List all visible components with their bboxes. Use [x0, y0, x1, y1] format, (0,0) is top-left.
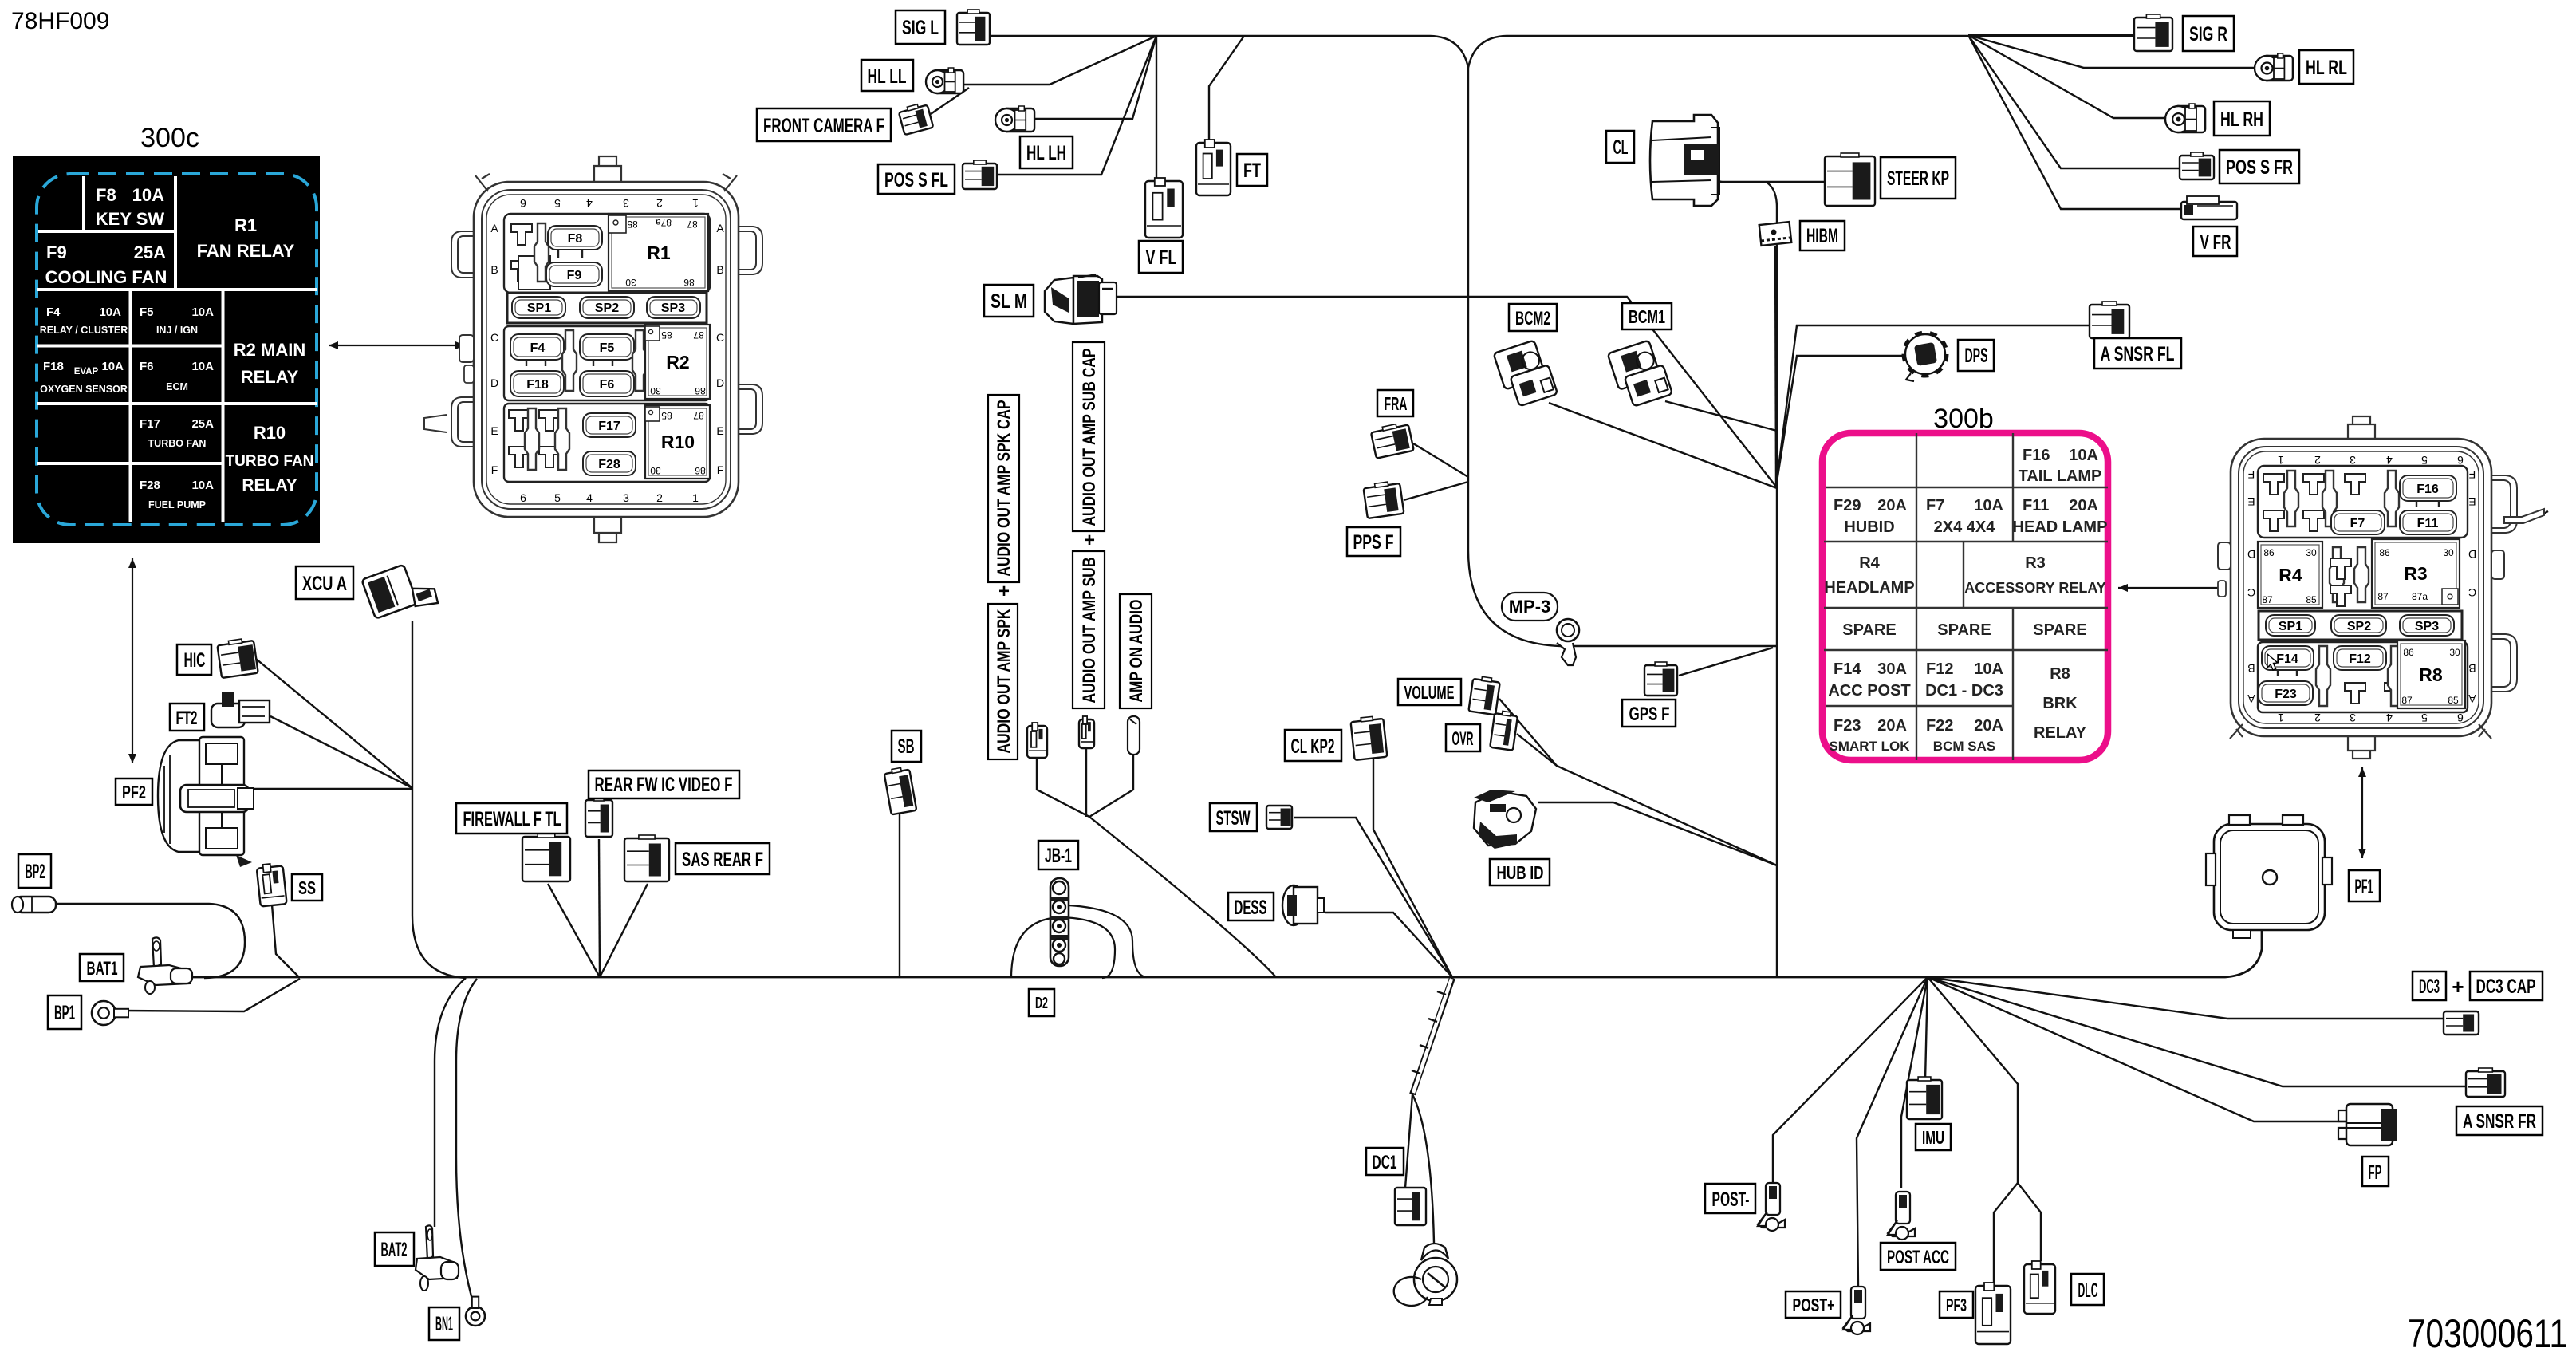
svg-text:300b: 300b [1933, 404, 1994, 434]
legend cell F12 [1925, 660, 2003, 700]
wire audio sub wire [1085, 748, 1087, 817]
label XCU A [296, 566, 353, 599]
svg-text:GPS F: GPS F [1629, 704, 1670, 725]
fuse box 300c bottom module [504, 404, 710, 482]
label FT [1237, 154, 1267, 186]
svg-text:86: 86 [683, 277, 695, 288]
label AUDIO OUT AMP SUB CAP [1073, 342, 1105, 531]
connector A SNSR FR [2466, 1068, 2505, 1097]
connector CL KP2 [1350, 715, 1387, 760]
legend cell F4 [40, 305, 128, 336]
svg-text:DC3: DC3 [2419, 976, 2440, 998]
wire JB-1 loop [1011, 917, 1115, 978]
connector IMU [1907, 1077, 1942, 1119]
svg-text:6: 6 [2457, 712, 2464, 724]
svg-text:HUBID: HUBID [1844, 518, 1894, 536]
svg-text:86: 86 [695, 385, 706, 396]
svg-text:F9: F9 [46, 242, 67, 262]
svg-text:POST-: POST- [1712, 1188, 1750, 1211]
svg-text:C: C [716, 331, 724, 344]
connector DPS [1904, 333, 1947, 381]
svg-text:SB: SB [898, 735, 915, 758]
connector SL M [1045, 274, 1117, 324]
connector SS [256, 862, 286, 906]
legend cell R10 [226, 423, 314, 495]
svg-text:4: 4 [586, 491, 593, 504]
svg-text:30: 30 [650, 385, 661, 396]
svg-text:2: 2 [2314, 454, 2321, 467]
label BAT1 [80, 954, 124, 981]
label BP1 [48, 995, 81, 1029]
connector MP-3 [1557, 619, 1579, 665]
svg-text:1: 1 [2278, 454, 2284, 467]
svg-text:HEADLAMP: HEADLAMP [1824, 579, 1914, 597]
legend cell R8 [2034, 665, 2087, 742]
svg-text:EVAP: EVAP [74, 367, 99, 376]
svg-text:F12: F12 [1926, 660, 1953, 678]
svg-text:POS S FR: POS S FR [2226, 156, 2293, 179]
fuse box 300c side letters [490, 222, 724, 476]
svg-text:87: 87 [693, 329, 704, 341]
label JB-1 [1038, 841, 1078, 869]
relay R3 [2372, 539, 2460, 608]
svg-text:BCM SAS: BCM SAS [1933, 739, 1995, 754]
svg-text:MP-3: MP-3 [1509, 597, 1551, 617]
wire JB-1 loop inner [1069, 905, 1147, 977]
label BN1 [429, 1307, 459, 1340]
spare fuses SP1 SP2 SP3 (300c box) [507, 293, 707, 323]
wire BP2 wire [57, 904, 245, 978]
svg-text:REAR FW IC VIDEO F: REAR FW IC VIDEO F [595, 774, 733, 796]
svg-text:PF2: PF2 [122, 782, 146, 802]
svg-text:87: 87 [687, 219, 698, 230]
legend cell F17 [140, 417, 214, 449]
wire SL M wire [1117, 297, 1776, 487]
legend cell R4 [1824, 554, 1914, 597]
wire left fan to V FL [1156, 36, 1157, 178]
svg-text:F: F [2248, 468, 2255, 481]
svg-text:AUDIO OUT AMP SUB: AUDIO OUT AMP SUB [1079, 558, 1099, 704]
svg-text:F5: F5 [600, 341, 615, 355]
wire FRA wire [1413, 443, 1468, 477]
svg-text:DLC: DLC [2078, 1279, 2098, 1302]
svg-text:E: E [490, 424, 498, 437]
legend box 300c [13, 156, 320, 543]
label HL RL [2299, 50, 2353, 84]
connector BP1 [92, 1001, 128, 1025]
label V FR [2193, 227, 2237, 256]
svg-text:STEER KP: STEER KP [1887, 168, 1949, 190]
svg-text:1: 1 [2278, 712, 2284, 724]
connector FT2 [211, 692, 270, 727]
label AUDIO OUT AMP SPK CAP [988, 395, 1019, 582]
wire CL to STEER KP [1711, 175, 1825, 182]
svg-text:300c: 300c [140, 123, 199, 153]
wire branch to FT [1209, 36, 1244, 140]
svg-text:TURBO FAN: TURBO FAN [226, 453, 314, 470]
wire DLC branch [2018, 1183, 2041, 1261]
svg-text:OVR: OVR [1452, 728, 1474, 750]
svg-text:F18: F18 [526, 378, 549, 392]
relay R8 [2397, 641, 2465, 708]
svg-text:SP3: SP3 [661, 302, 685, 315]
connector CL [1650, 115, 1719, 206]
svg-text:30: 30 [625, 277, 636, 288]
svg-text:POS S FL: POS S FL [884, 169, 948, 191]
svg-text:SP1: SP1 [2279, 620, 2302, 633]
svg-text:POST ACC: POST ACC [1887, 1247, 1949, 1268]
wire left fan to HL LL [963, 36, 1156, 85]
svg-text:R10: R10 [661, 432, 695, 452]
svg-text:85: 85 [661, 329, 672, 341]
svg-text:6: 6 [520, 197, 526, 210]
svg-text:PF3: PF3 [1946, 1295, 1967, 1315]
svg-text:FP: FP [2369, 1161, 2382, 1184]
svg-text:5: 5 [554, 197, 561, 210]
label STSW [1210, 803, 1257, 831]
svg-text:R10: R10 [254, 423, 286, 443]
svg-text:POST+: POST+ [1793, 1295, 1835, 1315]
label PF3 [1940, 1291, 1973, 1318]
svg-text:HIBM: HIBM [1806, 225, 1838, 247]
label CL [1606, 131, 1634, 163]
connector A SNSR FL [2090, 302, 2129, 338]
svg-text:ACC POST: ACC POST [1828, 682, 1910, 700]
wire right fan to HL RL [1968, 35, 2255, 68]
svg-text:F17: F17 [598, 420, 620, 433]
label IMU [1916, 1124, 1951, 1150]
svg-text:5: 5 [2421, 712, 2428, 724]
svg-text:C: C [2247, 586, 2255, 599]
svg-text:SPARE: SPARE [1937, 621, 1991, 639]
connector AUDIO OUT AMP SUB plug [1079, 716, 1094, 748]
svg-text:F17: F17 [140, 417, 160, 431]
svg-text:E: E [2247, 495, 2255, 508]
connector JB-1 [1050, 878, 1069, 966]
svg-text:10A: 10A [1974, 660, 2003, 678]
svg-text:D: D [2468, 548, 2476, 561]
legend cell F11 [2013, 497, 2108, 536]
wire top harness [990, 36, 2134, 68]
svg-text:AUDIO OUT AMP SPK: AUDIO OUT AMP SPK [994, 609, 1014, 753]
svg-text:86: 86 [2403, 647, 2414, 658]
label SIG L [896, 10, 945, 44]
svg-text:F9: F9 [567, 269, 582, 282]
connector SAS REAR F [624, 835, 669, 881]
svg-text:F7: F7 [1926, 497, 1944, 514]
svg-text:SP3: SP3 [2415, 620, 2439, 633]
legend box 300b [1822, 433, 2108, 760]
label SIG R [2183, 16, 2234, 51]
svg-text:F11: F11 [2023, 497, 2049, 514]
wire BAT2 wire [435, 978, 466, 1227]
svg-text:BCM2: BCM2 [1515, 308, 1550, 329]
svg-text:F7: F7 [2350, 517, 2365, 530]
wire left fan to HL LH [1034, 36, 1156, 119]
svg-text:BAT2: BAT2 [381, 1239, 408, 1261]
mouse cursor artifact on F14 [2267, 654, 2278, 670]
svg-text:6: 6 [520, 491, 526, 504]
arrow black box to fuse box [329, 341, 465, 349]
svg-text:BP2: BP2 [26, 861, 45, 883]
connector SB [884, 767, 916, 815]
wire audio bundle to trunk [1089, 817, 1276, 977]
svg-text:SAS REAR F: SAS REAR F [682, 849, 763, 871]
svg-text:C: C [490, 331, 498, 344]
svg-text:SPARE: SPARE [2033, 621, 2086, 639]
svg-text:2: 2 [656, 491, 663, 504]
spare fuses SP1 SP2 SP3 (300b box) [2259, 611, 2462, 640]
connector FRA [1370, 421, 1414, 458]
svg-text:+: + [1084, 530, 1095, 551]
svg-text:703000611: 703000611 [2408, 1311, 2567, 1356]
label FIREWALL F TL [456, 803, 567, 834]
legend cell F28 [140, 479, 214, 510]
svg-text:V FL: V FL [1146, 246, 1177, 269]
arrow fuse box to PF1 [2358, 767, 2366, 858]
wire right fan to SIG R [1968, 34, 2134, 36]
relay R1 [609, 214, 708, 291]
svg-text:AUDIO OUT AMP SPK CAP: AUDIO OUT AMP SPK CAP [994, 400, 1014, 577]
svg-text:BAT1: BAT1 [87, 958, 118, 980]
svg-text:F5: F5 [140, 305, 154, 319]
svg-text:B: B [2247, 662, 2255, 675]
svg-text:10A: 10A [99, 305, 121, 319]
svg-text:F12: F12 [2349, 652, 2371, 666]
svg-text:87: 87 [693, 410, 704, 421]
svg-text:20A: 20A [2069, 497, 2098, 514]
legend cell F22 [1926, 717, 2003, 754]
label HL LL [861, 60, 913, 91]
wire fan to POST ACC [1901, 977, 1928, 1188]
svg-text:FUEL PUMP: FUEL PUMP [148, 499, 206, 510]
connector AUDIO OUT AMP SPK plug [1027, 723, 1047, 758]
svg-text:AMP ON AUDIO: AMP ON AUDIO [1126, 600, 1146, 703]
legend cell F14 [1828, 660, 1910, 700]
label FRONT CAMERA F [757, 108, 891, 141]
svg-text:D2: D2 [1035, 995, 1048, 1012]
svg-text:87a: 87a [2412, 591, 2428, 602]
wire firewall fan 2 [599, 839, 600, 977]
svg-text:87: 87 [2401, 695, 2413, 706]
svg-text:4: 4 [2386, 712, 2393, 724]
svg-text:AUDIO OUT AMP SUB CAP: AUDIO OUT AMP SUB CAP [1079, 349, 1099, 526]
svg-text:F29: F29 [1834, 497, 1861, 514]
wire DC1 cap wire [1412, 1094, 1434, 1243]
wire fusebox right stub [2512, 511, 2548, 522]
wire main trunk [191, 930, 2262, 977]
connector PPS F [1363, 480, 1404, 518]
connector HUB ID [1474, 790, 1536, 849]
svg-text:TAIL LAMP: TAIL LAMP [2019, 467, 2102, 485]
svg-text:+: + [2452, 975, 2464, 999]
svg-text:FIREWALL F TL: FIREWALL F TL [463, 808, 561, 830]
svg-text:78HF009: 78HF009 [11, 8, 109, 34]
svg-text:20A: 20A [1974, 717, 2003, 735]
connector HL LL [926, 68, 963, 93]
label SAS REAR F [676, 843, 770, 874]
wire SB wire [899, 813, 900, 977]
svg-text:DESS: DESS [1235, 897, 1267, 919]
svg-text:D: D [2247, 548, 2255, 561]
connector DC3 [2444, 1011, 2479, 1035]
svg-text:30A: 30A [1877, 660, 1907, 678]
connector AMP ON AUDIO cap [1128, 716, 1140, 755]
svg-text:F8: F8 [568, 232, 583, 246]
connector POS S FL [963, 160, 997, 189]
svg-text:RELAY: RELAY [242, 476, 297, 495]
svg-text:A SNSR FR: A SNSR FR [2463, 1110, 2536, 1133]
svg-text:PF1: PF1 [2355, 876, 2373, 898]
connector POST- [1758, 1183, 1785, 1231]
wire junction to DPS [1776, 356, 1907, 487]
fuse box 300b bottom module [2258, 642, 2468, 712]
label POST- [1705, 1184, 1755, 1213]
label MP-3 [1502, 593, 1558, 621]
svg-text:F16: F16 [2023, 447, 2050, 464]
connector OVR [1490, 710, 1518, 751]
svg-text:F11: F11 [2417, 517, 2439, 530]
svg-text:F14: F14 [1834, 660, 1861, 678]
svg-text:B: B [490, 263, 498, 276]
wire OVR wire [1517, 734, 1557, 766]
connector PF1 [2206, 815, 2332, 938]
connector V FR [2181, 196, 2237, 219]
fuse box 300b top module [2258, 466, 2468, 538]
wire XCU fan to PF2 [250, 788, 412, 790]
connector XCU A [361, 558, 439, 625]
svg-text:F4: F4 [530, 341, 546, 355]
wire fan to FP [1928, 977, 2346, 1121]
legend cell F9 COOLING FAN [45, 242, 167, 287]
connector REAR FW IC VIDEO F [585, 797, 612, 837]
label HUB ID [1490, 859, 1550, 885]
connector DC1 cap [1394, 1244, 1457, 1306]
svg-text:SPARE: SPARE [1842, 621, 1896, 639]
svg-text:E: E [716, 424, 723, 437]
connector GPS F [1644, 662, 1677, 696]
svg-text:85: 85 [2306, 594, 2317, 605]
wire SS wire [272, 905, 300, 978]
svg-text:2: 2 [656, 197, 663, 210]
label GPS F [1622, 700, 1676, 727]
wire fan to PF3 DLC [1928, 977, 2018, 1183]
svg-text:HL RL: HL RL [2306, 57, 2347, 79]
wire firewall fan 3 [600, 884, 648, 977]
svg-text:FRA: FRA [1385, 393, 1408, 414]
legend cell F29 [1834, 497, 1907, 536]
svg-text:SIG R: SIG R [2189, 23, 2227, 45]
label FP [2362, 1157, 2389, 1186]
svg-text:R4: R4 [1859, 554, 1880, 572]
connector POST ACC [1888, 1192, 1915, 1240]
wire DC1 wire [1405, 1094, 1412, 1188]
legend cell F7 [1926, 497, 2003, 536]
connector HL LH [995, 106, 1034, 132]
label SS [292, 874, 322, 901]
svg-text:F28: F28 [598, 458, 620, 471]
svg-text:10A: 10A [191, 360, 214, 373]
svg-text:F23: F23 [1834, 717, 1861, 735]
svg-text:V FR: V FR [2200, 231, 2231, 254]
connector BAT2 [416, 1225, 459, 1291]
svg-text:10A: 10A [1974, 497, 2003, 514]
svg-text:2X4 4X4: 2X4 4X4 [1934, 518, 1996, 536]
wire PF3 branch [1994, 1183, 2018, 1284]
fuse box 300c middle module [504, 326, 710, 400]
svg-text:R2 MAIN: R2 MAIN [234, 340, 305, 360]
svg-text:F8: F8 [96, 185, 116, 205]
svg-text:IMU: IMU [1922, 1127, 1944, 1148]
label FRA [1377, 390, 1413, 416]
svg-text:A: A [2247, 692, 2255, 705]
wire left fan to POS S FL [997, 36, 1156, 175]
svg-text:SS: SS [298, 877, 316, 898]
svg-text:10A: 10A [2069, 447, 2098, 464]
label BAT2 [375, 1232, 414, 1266]
svg-text:R3: R3 [2025, 554, 2046, 572]
svg-text:3: 3 [2350, 454, 2356, 467]
wire VOLUME wire [1499, 699, 1777, 865]
svg-text:BRK: BRK [2042, 695, 2078, 712]
svg-text:RELAY: RELAY [241, 367, 299, 387]
svg-text:30: 30 [2443, 547, 2454, 558]
svg-text:HL LL: HL LL [868, 65, 907, 88]
svg-text:5: 5 [554, 491, 561, 504]
wire audio spk wire [1037, 758, 1089, 817]
connector HIC [217, 637, 258, 678]
connector FRONT CAMERA F [898, 102, 933, 135]
svg-text:R1: R1 [234, 215, 257, 235]
svg-text:PPS F: PPS F [1353, 531, 1394, 554]
svg-text:30: 30 [2306, 547, 2317, 558]
connector DC1 [1395, 1188, 1426, 1225]
svg-text:F22: F22 [1926, 717, 1953, 735]
label OVR [1446, 724, 1480, 751]
svg-text:HIC: HIC [184, 649, 206, 672]
svg-text:XCU A: XCU A [302, 573, 347, 595]
connector PF2 [158, 737, 254, 867]
wire vertical drop right loop [1766, 182, 1777, 977]
svg-text:10A: 10A [191, 305, 214, 319]
wire fan to IMU [1925, 977, 1928, 1080]
legend cell R1 FAN RELAY [197, 215, 295, 261]
fuse box 300c top module [504, 214, 710, 293]
svg-text:87: 87 [2262, 594, 2273, 605]
svg-text:D: D [490, 376, 498, 389]
svg-text:RELAY: RELAY [2034, 724, 2087, 742]
wire DESS wire [1325, 913, 1452, 977]
relay R10 [645, 405, 710, 479]
connector V FL [1145, 178, 1183, 238]
svg-text:3: 3 [2350, 712, 2356, 724]
wire BCM2 wire [1549, 403, 1777, 488]
svg-text:R8: R8 [2050, 665, 2070, 683]
wire HUB ID wire [1538, 802, 1777, 865]
svg-text:BN1: BN1 [435, 1313, 453, 1335]
svg-text:SP1: SP1 [527, 302, 551, 315]
svg-text:3: 3 [623, 197, 629, 210]
wire BP1 wire [121, 979, 300, 1011]
connector HL RL [2255, 53, 2293, 81]
wire fan to POST+ [1857, 977, 1928, 1286]
svg-text:10A: 10A [132, 185, 164, 205]
wire right fan to V FR [1968, 35, 2181, 209]
legend cell F6 [140, 360, 214, 392]
svg-text:B: B [2468, 662, 2476, 675]
svg-text:SIG L: SIG L [902, 17, 939, 39]
svg-text:R8: R8 [2419, 664, 2443, 685]
